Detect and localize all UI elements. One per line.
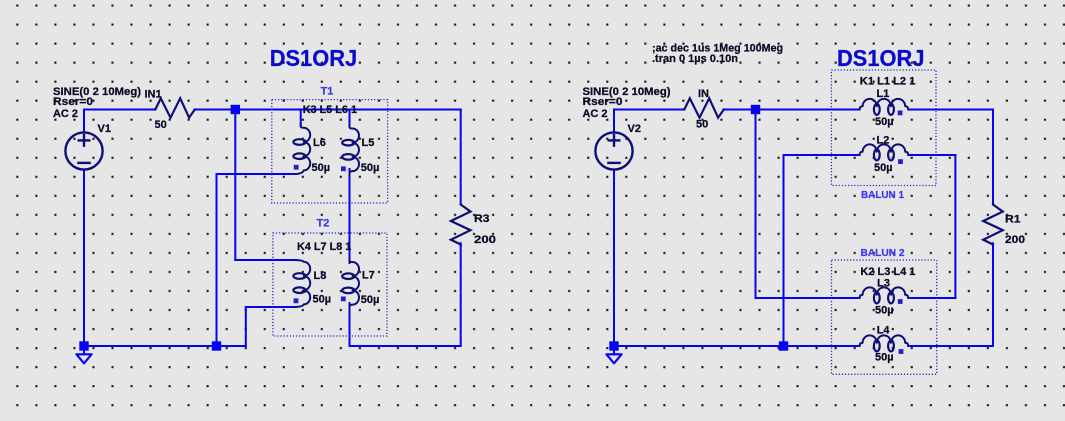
- svg-text:T2: T2: [317, 218, 330, 230]
- svg-text:50: 50: [696, 119, 708, 131]
- svg-text:BALUN 1: BALUN 1: [861, 189, 904, 201]
- svg-text:50µ: 50µ: [875, 352, 894, 364]
- svg-text:V2: V2: [628, 123, 641, 135]
- svg-text:L4: L4: [877, 325, 891, 337]
- svg-text:IN: IN: [698, 88, 709, 100]
- svg-text:L8: L8: [314, 270, 327, 282]
- svg-text:200: 200: [1005, 234, 1025, 246]
- svg-text:R3: R3: [474, 213, 490, 225]
- svg-text:50µ: 50µ: [361, 294, 380, 306]
- svg-text:50µ: 50µ: [874, 162, 893, 174]
- svg-text:T1: T1: [321, 86, 334, 98]
- svg-text:L2: L2: [877, 135, 890, 147]
- svg-text:L5: L5: [362, 137, 375, 149]
- svg-text:DS1ORJ: DS1ORJ: [270, 45, 358, 71]
- svg-text:L7: L7: [362, 270, 375, 282]
- svg-text:BALUN 2: BALUN 2: [861, 247, 905, 259]
- svg-text:V1: V1: [98, 123, 111, 135]
- svg-text:AC 2: AC 2: [53, 108, 78, 120]
- svg-text:Rser=0: Rser=0: [53, 96, 93, 108]
- svg-text:K2 L3 L4 1: K2 L3 L4 1: [860, 266, 915, 278]
- svg-text:50µ: 50µ: [875, 116, 894, 128]
- svg-text:Rser=0: Rser=0: [583, 96, 623, 108]
- svg-text:K3 L5 L6 1: K3 L5 L6 1: [303, 104, 357, 116]
- svg-text:L3: L3: [877, 278, 890, 290]
- svg-text:L6: L6: [313, 137, 326, 149]
- svg-text:IN1: IN1: [145, 89, 162, 101]
- svg-text:K4 L7 L8 1: K4 L7 L8 1: [297, 241, 351, 253]
- svg-text:.tran 0 1µs 0.10n: .tran 0 1µs 0.10n: [652, 53, 738, 65]
- svg-text:50µ: 50µ: [312, 162, 331, 174]
- svg-text:200: 200: [474, 234, 496, 246]
- svg-text:L1: L1: [877, 88, 890, 100]
- svg-text:K1 L1 L2 1: K1 L1 L2 1: [860, 75, 916, 87]
- svg-text:DS1ORJ: DS1ORJ: [837, 45, 925, 71]
- svg-text:50: 50: [155, 119, 167, 131]
- svg-text:R1: R1: [1005, 214, 1021, 226]
- svg-text:50µ: 50µ: [313, 294, 332, 306]
- svg-text:50µ: 50µ: [361, 162, 380, 174]
- svg-text:50µ: 50µ: [875, 305, 894, 317]
- svg-text:AC 2: AC 2: [583, 108, 608, 120]
